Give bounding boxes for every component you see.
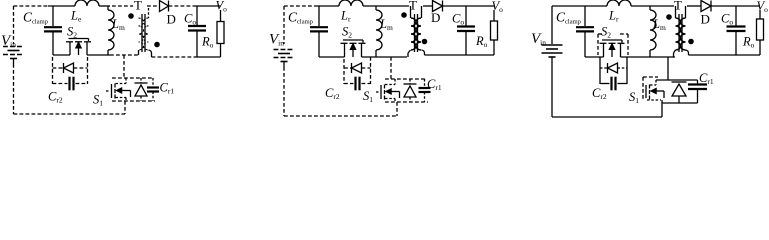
svg-text:T: T — [134, 0, 142, 13]
svg-text:Cclamp: Cclamp — [556, 10, 581, 26]
svg-text:Vo: Vo — [757, 0, 769, 14]
svg-text:D: D — [701, 12, 710, 27]
svg-text:Le: Le — [70, 9, 82, 24]
svg-text:S2: S2 — [601, 25, 611, 40]
svg-text:Co: Co — [721, 12, 733, 27]
svg-text:D: D — [431, 10, 440, 25]
svg-text:S1: S1 — [629, 90, 639, 105]
svg-text:Cr1: Cr1 — [699, 71, 714, 86]
svg-text:D: D — [167, 12, 176, 27]
svg-text:Cr2: Cr2 — [325, 86, 340, 101]
svg-text:Lr: Lr — [340, 9, 351, 24]
svg-text:S1: S1 — [93, 93, 103, 108]
svg-text:Cr2: Cr2 — [592, 86, 607, 101]
svg-text:Co: Co — [452, 12, 464, 27]
svg-text:Cclamp: Cclamp — [23, 10, 48, 26]
svg-text:Lm: Lm — [379, 17, 393, 32]
svg-text:S1: S1 — [363, 89, 373, 104]
svg-text:Co: Co — [184, 12, 196, 27]
svg-text:Vo: Vo — [216, 0, 228, 14]
svg-text:S2: S2 — [342, 25, 352, 40]
svg-text:Cr1: Cr1 — [160, 81, 175, 96]
svg-text:Cclamp: Cclamp — [288, 10, 313, 26]
svg-text:Ro: Ro — [742, 35, 755, 50]
svg-text:Ro: Ro — [475, 34, 488, 49]
svg-text:Ro: Ro — [201, 35, 214, 50]
svg-text:Cr1: Cr1 — [427, 77, 442, 92]
svg-text:Lm: Lm — [652, 17, 666, 32]
svg-text:Lm: Lm — [111, 17, 125, 32]
svg-text:Lr: Lr — [608, 9, 619, 24]
svg-text:Vo: Vo — [492, 0, 504, 14]
svg-text:Vin: Vin — [531, 31, 546, 47]
svg-text:T: T — [409, 0, 417, 13]
svg-text:T: T — [674, 0, 682, 13]
svg-text:Cr2: Cr2 — [48, 90, 63, 105]
svg-text:Vin: Vin — [269, 32, 284, 48]
svg-text:Vin: Vin — [1, 33, 16, 49]
svg-text:S2: S2 — [67, 25, 77, 40]
